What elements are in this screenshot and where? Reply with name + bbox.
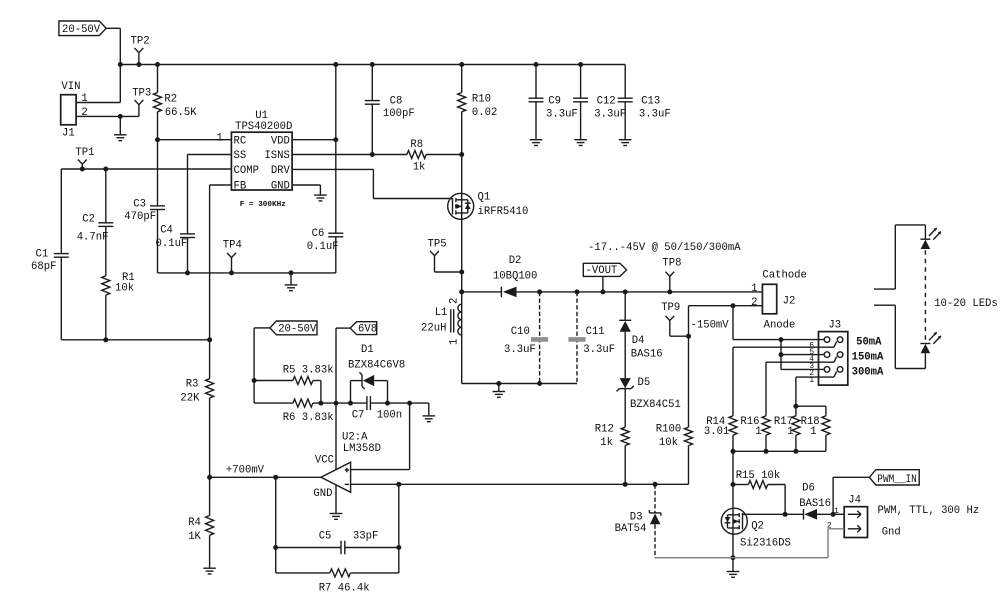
wire anode bus to J3 pins 6-4-2: [733, 306, 824, 370]
transistor Q2 Si2316DS: [721, 508, 791, 549]
svg-text:VDD: VDD: [271, 135, 290, 147]
svg-text:10k: 10k: [659, 437, 678, 449]
resistor R18 1: [801, 416, 830, 452]
test point TP9: [661, 302, 688, 336]
wire J3 pin 1 to R17/R18: [793, 377, 834, 416]
svg-text:C12: C12: [597, 95, 616, 107]
svg-text:C2: C2: [82, 213, 95, 225]
svg-text:150mA: 150mA: [852, 352, 884, 364]
test point TP1: [75, 147, 94, 172]
resistor R4 1K: [188, 477, 213, 568]
wire op-amp minus line: [351, 483, 689, 485]
svg-text:Q2: Q2: [751, 520, 764, 532]
svg-text:L1: L1: [435, 307, 448, 319]
resistor R8 1k: [407, 139, 462, 174]
svg-text:Q1: Q1: [478, 192, 491, 204]
svg-text:R15 10k: R15 10k: [736, 470, 781, 482]
svg-text:FB: FB: [234, 180, 247, 192]
svg-text:-VOUT: -VOUT: [586, 265, 618, 277]
svg-text:1K: 1K: [188, 531, 201, 543]
svg-text:C3: C3: [133, 198, 146, 210]
svg-text:1: 1: [216, 132, 222, 144]
svg-text:66.5K: 66.5K: [165, 107, 197, 119]
ground at L1/C10 rail: [493, 381, 506, 397]
svg-text:1: 1: [787, 426, 793, 438]
svg-text:D6: D6: [802, 483, 815, 495]
net flag -VOUT: [583, 263, 626, 294]
svg-text:3.3uF: 3.3uF: [546, 109, 578, 121]
ground at U1 GND: [314, 195, 327, 201]
wire C1/R1 bottom rail to FB divider: [61, 337, 212, 342]
svg-text:22K: 22K: [180, 393, 200, 405]
svg-text:R7 46.4k: R7 46.4k: [319, 583, 370, 595]
svg-text:BAT54: BAT54: [615, 523, 647, 535]
LED string bracket: [874, 225, 925, 369]
svg-text:D3: D3: [630, 511, 643, 523]
wire Q2 gate line: [743, 513, 804, 515]
svg-text:10BQ100: 10BQ100: [493, 271, 538, 283]
svg-text:R4: R4: [188, 517, 201, 529]
LED D lower: [920, 332, 941, 353]
wire op-amp plus input: [351, 403, 410, 470]
svg-text:Cathode: Cathode: [762, 269, 807, 281]
wire anode sense drop to TP9 node: [686, 306, 691, 428]
svg-text:3.3uF: 3.3uF: [504, 344, 536, 356]
inductor L1 22uH: [421, 292, 462, 384]
svg-text:BAS16: BAS16: [799, 498, 831, 510]
svg-text:1: 1: [810, 426, 816, 438]
svg-text:0.02: 0.02: [472, 107, 497, 119]
ground under C12: [574, 140, 587, 146]
diode D4 BAS16: [619, 289, 662, 378]
svg-text:Gnd: Gnd: [882, 527, 901, 539]
label 150mA: [852, 352, 884, 364]
resistor R2 66.5K: [154, 62, 198, 140]
svg-text:68pF: 68pF: [31, 261, 56, 273]
ground at mid rail: [285, 270, 298, 290]
wire L1 bottom rail: [462, 383, 577, 385]
wire input flag to J1 pin 1 and top rail: [118, 28, 123, 102]
connector J3 current select header: [809, 320, 848, 386]
wire RC to R2/C3 node: [155, 132, 231, 144]
ground at C7: [423, 403, 436, 422]
svg-text:100pF: 100pF: [383, 108, 415, 120]
test point TP2: [131, 36, 150, 68]
connector J4 PWM input: [827, 495, 868, 538]
svg-text:TP4: TP4: [223, 240, 242, 252]
resistor R10 0.02: [458, 62, 498, 157]
svg-text:ISNS: ISNS: [264, 150, 289, 162]
svg-text:J1: J1: [62, 128, 75, 140]
svg-text:D1: D1: [361, 344, 374, 356]
svg-text:-17..-45V @ 50/150/300mA: -17..-45V @ 50/150/300mA: [588, 242, 741, 254]
svg-text:+700mV: +700mV: [226, 465, 265, 477]
svg-text:VCC: VCC: [315, 455, 334, 467]
resistor R17 1: [774, 416, 800, 452]
power flag 20-50V input: [59, 21, 120, 36]
zener diode D5 BZX84C51: [617, 377, 681, 427]
svg-text:TP1: TP1: [75, 147, 94, 159]
ground at Q2 source: [727, 558, 740, 578]
svg-text:LM358D: LM358D: [343, 443, 381, 455]
wire J4 pin 1: [833, 513, 844, 515]
svg-text:6V8: 6V8: [358, 323, 377, 335]
svg-text:F = 300KHz: F = 300KHz: [240, 201, 287, 209]
svg-text:C1: C1: [36, 248, 49, 260]
label PWM, TTL, 300 Hz: [878, 505, 980, 517]
svg-text:33pF: 33pF: [353, 531, 378, 543]
wire J2 pin 2 anode: [689, 303, 763, 308]
LED D upper: [920, 228, 941, 249]
ground under C13: [619, 140, 632, 146]
wire J3 pin 3 to R16: [766, 362, 834, 416]
transistor Q1 iRFR5410: [448, 192, 529, 220]
wire SS pin to C4: [188, 155, 232, 234]
capacitor C7 100n: [352, 396, 429, 422]
svg-text:D5: D5: [638, 377, 651, 389]
svg-text:R12: R12: [595, 424, 614, 436]
svg-text:TPS40200D: TPS40200D: [235, 121, 292, 133]
svg-text:D4: D4: [632, 335, 645, 347]
connector J1 VIN: [61, 81, 88, 140]
svg-text:100n: 100n: [377, 410, 402, 422]
svg-text:20-50V: 20-50V: [278, 324, 317, 336]
wire Q1 drain/source vertical: [459, 155, 464, 292]
svg-text:R100: R100: [656, 424, 681, 436]
capacitor C6 0.1uF: [307, 228, 344, 273]
wire bias divider left leg: [252, 328, 257, 403]
net flag 20-50V bias: [254, 321, 317, 336]
capacitor C10 3.3uF: [504, 289, 548, 386]
svg-text:BZX84C6V8: BZX84C6V8: [348, 359, 405, 371]
wire VDD pin to top rail: [292, 62, 338, 233]
svg-text:iRFR5410: iRFR5410: [478, 206, 529, 218]
wire -VOUT rail: [459, 289, 762, 294]
resistor R5 3.83k: [254, 364, 333, 403]
label Gnd: [882, 527, 901, 539]
svg-text:2: 2: [81, 107, 87, 119]
wire FB pin down to R3 divider: [210, 185, 232, 379]
svg-text:22uH: 22uH: [421, 323, 446, 335]
label -150mV: [691, 320, 730, 332]
wire DRV to Q1 gate: [292, 169, 452, 198]
svg-text:TP5: TP5: [428, 238, 447, 250]
svg-text:SS: SS: [234, 150, 247, 162]
svg-text:J4: J4: [848, 495, 861, 507]
svg-text:1: 1: [449, 339, 461, 345]
capacitor C1 68pF: [31, 169, 69, 340]
test point TP5: [428, 238, 462, 272]
svg-text:C10: C10: [511, 326, 530, 338]
wire ISNS line: [292, 154, 407, 156]
test point TP8: [662, 258, 681, 295]
test point TP4: [223, 240, 242, 276]
svg-text:2: 2: [449, 298, 461, 304]
capacitor C5 33pF: [273, 477, 401, 573]
svg-text:GND: GND: [313, 488, 332, 500]
ground under C9: [530, 140, 543, 146]
wire +700mV node: [207, 465, 321, 480]
wire J4 pin 2 to ground node: [655, 529, 844, 558]
svg-text:10k: 10k: [115, 282, 134, 294]
svg-text:3.01: 3.01: [704, 426, 729, 438]
svg-text:BAS16: BAS16: [631, 349, 663, 361]
svg-text:TP8: TP8: [662, 258, 681, 270]
capacitor C13 3.3uF: [618, 65, 671, 140]
svg-text:1: 1: [81, 93, 87, 105]
svg-text:3.3uF: 3.3uF: [594, 109, 626, 121]
wire J1 pin 1: [76, 102, 120, 104]
svg-text:C4: C4: [160, 225, 173, 237]
label output voltage range: [588, 242, 741, 254]
resistor R7 46.4k: [276, 569, 399, 595]
op-amp U2:A LM358D: [313, 432, 381, 500]
svg-text:Si2316DS: Si2316DS: [740, 537, 791, 549]
svg-text:R8: R8: [410, 139, 423, 151]
svg-text:3.3uF: 3.3uF: [639, 109, 671, 121]
svg-text:R6 3.83k: R6 3.83k: [283, 412, 334, 424]
wire COMP line: [61, 168, 231, 170]
capacitor C8 100pF: [365, 62, 415, 157]
resistor R15 10k: [733, 470, 788, 517]
wire mid ground rail: [158, 272, 336, 274]
svg-text:1: 1: [755, 426, 761, 438]
svg-text:C9: C9: [548, 95, 561, 107]
capacitor C2 4.7nF: [77, 167, 114, 276]
label 10-20 LEDs: [934, 298, 998, 310]
svg-text:1k: 1k: [600, 437, 613, 449]
diode D6 BAS16: [799, 483, 835, 520]
wire op-amp GND: [335, 485, 337, 514]
svg-text:VIN: VIN: [61, 81, 80, 93]
svg-text:C8: C8: [390, 95, 403, 107]
diode D3 BAT54: [615, 482, 661, 558]
svg-text:Anode: Anode: [764, 319, 796, 331]
wire top VIN rail: [120, 64, 625, 66]
test point TP3: [132, 87, 151, 116]
ground under R4: [203, 568, 216, 574]
svg-text:GND: GND: [271, 180, 290, 192]
resistor R14 3.01: [704, 416, 737, 452]
wire sense resistor bottom bus: [731, 449, 826, 454]
resistor R16 1: [740, 416, 770, 452]
wire Q2 source to ground node: [731, 555, 736, 560]
capacitor C3 470pF: [124, 140, 165, 273]
svg-text:D2: D2: [509, 255, 522, 267]
svg-text:R3: R3: [186, 379, 199, 391]
svg-text:10-20 LEDs: 10-20 LEDs: [934, 298, 998, 310]
resistor R1 10k: [102, 272, 135, 342]
svg-text:2: 2: [751, 297, 757, 309]
svg-text:0.1uF: 0.1uF: [307, 241, 339, 253]
svg-text:BZX84C51: BZX84C51: [630, 399, 681, 411]
wire op-amp VCC: [335, 403, 337, 470]
net flag 6V8: [336, 322, 377, 403]
svg-text:C6: C6: [312, 228, 325, 240]
wire dashed LED chain: [924, 250, 926, 342]
svg-text:R2: R2: [164, 93, 177, 105]
svg-text:PWM__IN: PWM__IN: [877, 474, 917, 486]
resistor R3 22K: [180, 379, 213, 478]
svg-text:PWM, TTL, 300 Hz: PWM, TTL, 300 Hz: [878, 505, 980, 517]
svg-text:C11: C11: [586, 326, 605, 338]
svg-text:R10: R10: [472, 93, 491, 105]
resistor R12 1k: [595, 424, 629, 487]
wire bus down to Q2 drain: [731, 451, 736, 557]
wire J1 pin 2: [76, 114, 139, 119]
diode D2 10BQ100: [493, 255, 538, 297]
label 300mA: [852, 367, 884, 379]
label 50mA: [856, 337, 882, 349]
svg-text:C7: C7: [352, 410, 365, 422]
svg-text:C13: C13: [641, 95, 660, 107]
svg-text:J3: J3: [828, 320, 841, 332]
svg-text:R5 3.83k: R5 3.83k: [283, 364, 334, 376]
svg-text:C5: C5: [319, 531, 332, 543]
capacitor C9 3.3uF: [529, 62, 578, 140]
svg-text:3.3uF: 3.3uF: [583, 344, 615, 356]
capacitor C11 3.3uF: [568, 289, 615, 383]
op IC U1 TPS40200D: [231, 110, 292, 209]
svg-text:50mA: 50mA: [856, 337, 882, 349]
capacitor C4 0.1uF: [156, 225, 196, 276]
connector J2 LED string: [751, 269, 807, 331]
wire GND pin: [292, 185, 320, 195]
wire minus feedback drop: [396, 482, 401, 573]
net flag PWM__IN: [833, 470, 919, 515]
svg-text:1: 1: [751, 283, 757, 295]
svg-text:TP9: TP9: [661, 302, 680, 314]
ground at J1 pin 2: [114, 116, 127, 140]
svg-text:20-50V: 20-50V: [62, 24, 101, 36]
svg-text:J2: J2: [783, 296, 796, 308]
svg-text:RC: RC: [234, 135, 247, 147]
resistor R6 3.83k: [254, 399, 367, 424]
svg-text:470pF: 470pF: [124, 211, 156, 223]
svg-text:1k: 1k: [413, 162, 426, 174]
svg-text:300mA: 300mA: [852, 367, 884, 379]
svg-text:4.7nF: 4.7nF: [77, 231, 109, 243]
svg-text:TP3: TP3: [132, 87, 151, 99]
wire J3 pin 5 to R14: [733, 347, 834, 416]
svg-text:TP2: TP2: [131, 36, 150, 48]
zener diode D1 BZX84C6V8: [348, 344, 405, 403]
resistor R100 10k: [656, 424, 693, 485]
ground at op-amp: [330, 514, 343, 520]
svg-text:DRV: DRV: [271, 165, 291, 177]
svg-text:0.1uF: 0.1uF: [156, 238, 188, 250]
svg-text:U2:A: U2:A: [342, 432, 368, 444]
svg-text:COMP: COMP: [234, 165, 259, 177]
svg-text:-150mV: -150mV: [691, 320, 730, 332]
capacitor C12 3.3uF: [573, 62, 626, 140]
